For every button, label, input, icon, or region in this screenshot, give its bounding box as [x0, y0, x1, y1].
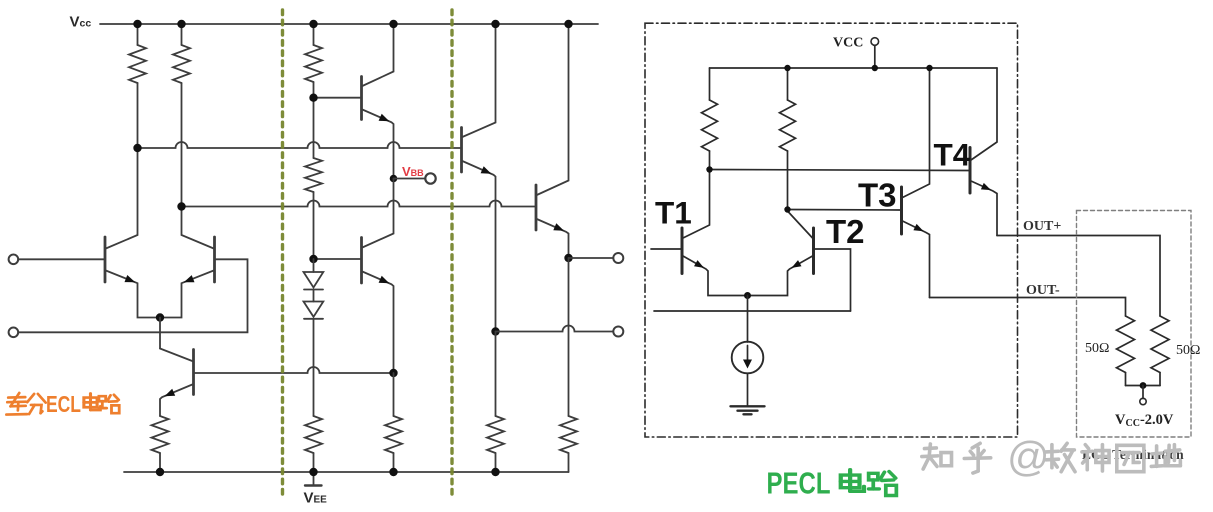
watermark yuan of 牧神园地: [1117, 445, 1144, 471]
node top rail dot x568.5: [564, 20, 572, 28]
transistor T3: [902, 68, 930, 298]
transistor Q1: [105, 148, 160, 318]
svg-text:PECL: PECL: [767, 466, 831, 501]
node top rail dot x495.5: [491, 20, 499, 28]
resistor RB: [780, 68, 796, 210]
node bottom rail dot x160: [156, 468, 164, 476]
watermark hu of 知乎: [964, 443, 990, 473]
watermark shen of 牧神园地: [1082, 445, 1109, 471]
resistor R10: [560, 416, 577, 472]
node PECL rail dot x787.5: [784, 65, 790, 71]
watermark zhi of 知乎: [922, 444, 952, 469]
output terminal O2: [613, 327, 623, 337]
node top rail dot x137.5: [133, 20, 141, 28]
wire term stub: [1142, 386, 1144, 399]
PECL dash-dot border box: [645, 23, 1018, 437]
diode D2: [304, 290, 324, 417]
svg-text:ECL: ECL: [46, 391, 81, 417]
transistor Q5: [314, 179, 394, 374]
node bus P1 dot: [706, 166, 712, 172]
node tail dot: [744, 292, 751, 299]
label lu of 差分ECL电路: [99, 395, 119, 413]
resistor RT1 50ohm: [1117, 316, 1135, 386]
label lu of PECL电路: [869, 472, 897, 496]
resistor RT2 50ohm: [1151, 316, 1169, 386]
wire VBB stub: [394, 178, 426, 180]
wire OUT2: [496, 326, 614, 332]
resistor RA: [702, 68, 718, 170]
watermark di of 牧神园地: [1151, 445, 1180, 467]
wire OUT1: [569, 257, 614, 259]
node PECL rail dot x929.5: [926, 65, 932, 71]
node y373 dot: [389, 369, 397, 377]
svg-text:T2: T2: [826, 213, 865, 250]
wire bottom VEE rail: [124, 471, 569, 473]
wire VCC stub: [874, 45, 876, 68]
node top rail dot x181.5: [177, 20, 185, 28]
transistor T4: [970, 68, 997, 236]
current source I1: [732, 342, 764, 407]
terminal VTT: [1140, 398, 1146, 404]
terminal VBB: [425, 173, 435, 183]
node top rail dot x313.5: [309, 20, 317, 28]
diode D1: [304, 259, 324, 290]
ground: [731, 406, 765, 414]
watermark mu of 牧神园地: [1046, 443, 1075, 471]
resistor R1: [129, 24, 146, 148]
node bottom rail dot x393.5: [389, 468, 397, 476]
wire OUT- run: [930, 298, 1126, 317]
wire bus P1 to T4 base: [710, 170, 969, 171]
input terminal IN1: [9, 254, 19, 264]
label cha of 差分ECL电路: [6, 393, 27, 415]
node termination dot: [1140, 382, 1147, 389]
resistor R8: [385, 373, 402, 472]
wire T2 input line: [654, 310, 851, 312]
input terminal IN2: [9, 328, 19, 338]
wire bus B y206.5: [182, 201, 537, 207]
transistor Q3: [160, 349, 194, 417]
wire tail down: [747, 296, 749, 343]
label fen of 差分ECL电路: [27, 394, 45, 414]
resistor R5: [152, 416, 169, 472]
resistor R3: [305, 24, 322, 98]
output terminal O1: [613, 253, 623, 263]
wire Q7 emitter down: [568, 258, 570, 416]
wire Q3 collector line y373: [195, 367, 394, 373]
node bus B dot: [177, 202, 185, 210]
svg-text:50Ω: 50Ω: [1176, 343, 1200, 358]
wire termination bottom: [1126, 385, 1161, 387]
node bus P2 dot: [784, 206, 790, 212]
wire VCC top rail: [100, 23, 598, 25]
node top rail dot x393.5: [389, 20, 397, 28]
wire emitter node down: [159, 318, 161, 349]
resistor R4: [305, 98, 322, 259]
svg-text:VCC-2.0V: VCC-2.0V: [1115, 412, 1174, 429]
label dian of 差分ECL电路: [84, 393, 100, 410]
node bottom rail dot x495.5: [491, 468, 499, 476]
transistor Q7: [536, 24, 569, 258]
svg-text:T1: T1: [655, 195, 692, 231]
label dian of PECL电路: [841, 470, 864, 492]
transistor T1: [651, 170, 748, 296]
separator dashed line 1: [281, 10, 284, 497]
transistor T2: [748, 211, 851, 311]
separator dashed line 2: [450, 10, 453, 497]
svg-text:T4: T4: [934, 137, 971, 173]
node Q4 base dot: [309, 94, 317, 102]
wire OUT+ run: [997, 236, 1160, 317]
wire IN2 run: [18, 259, 247, 332]
resistor R7: [305, 416, 322, 472]
svg-text:T3: T3: [858, 177, 897, 214]
wire bus A y148: [138, 142, 462, 148]
svg-text:@: @: [1007, 433, 1050, 480]
node OUT1 dot: [564, 254, 572, 262]
transistor Q2: [160, 207, 215, 318]
terminal VCC: [871, 38, 879, 46]
svg-text:OUT-: OUT-: [1026, 283, 1060, 298]
node VBB dot: [390, 175, 398, 183]
resistor R9: [487, 332, 504, 473]
termination dashed box: [1077, 211, 1192, 438]
node common emitter dot: [156, 313, 164, 321]
svg-text:50Ω: 50Ω: [1085, 341, 1109, 356]
svg-text:VCC: VCC: [833, 36, 863, 51]
wire IN1 to Q1 base: [18, 258, 104, 260]
transistor Q6: [462, 24, 496, 332]
wire PECL top rail: [710, 67, 998, 69]
node OUT2 dot: [491, 327, 499, 335]
node Q5 base dot: [309, 255, 317, 263]
transistor Q4: [314, 24, 394, 179]
node bottom rail dot x313.5: [309, 468, 317, 476]
svg-text:OUT+: OUT+: [1023, 219, 1061, 234]
resistor R2: [173, 24, 190, 207]
VEE stub: [305, 472, 322, 486]
node PECL rail dot x874.8: [872, 65, 878, 71]
node bus A dot: [133, 144, 141, 152]
wire bus P2 to T3 base: [788, 209, 901, 212]
